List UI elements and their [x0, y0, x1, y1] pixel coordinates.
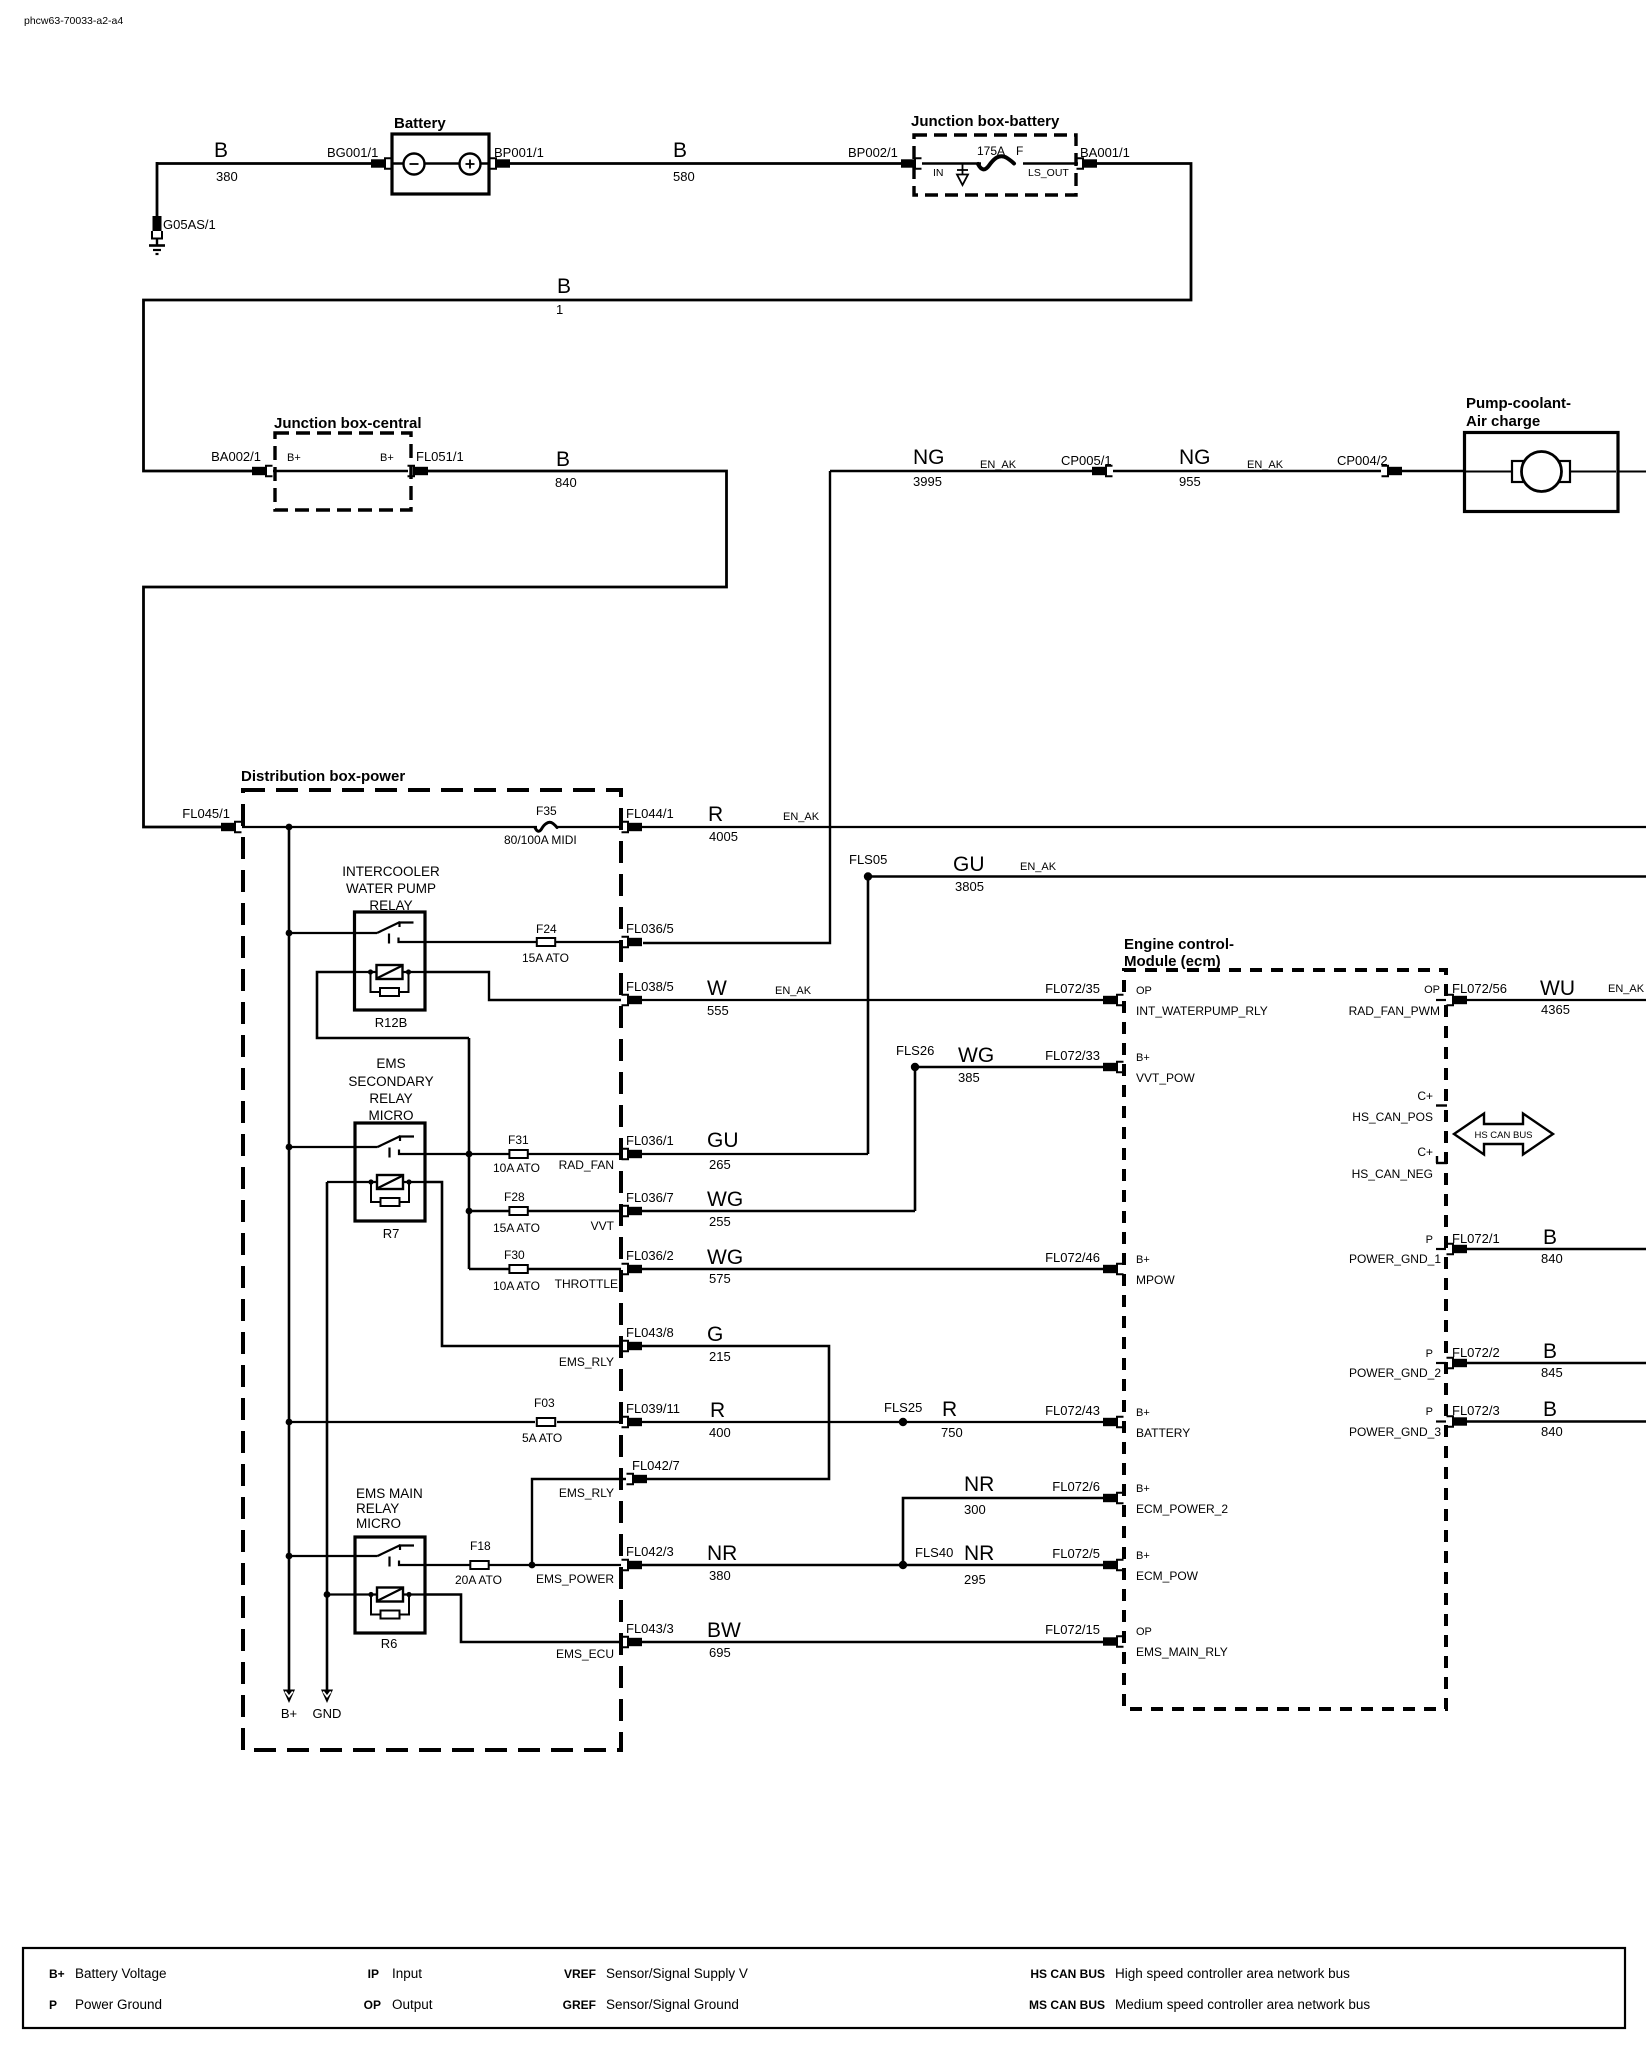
svg-text:B: B: [1543, 1340, 1557, 1363]
svg-text:15A ATO: 15A ATO: [493, 1221, 540, 1235]
svg-text:Module (ecm): Module (ecm): [1124, 953, 1221, 970]
wire NG riser from FL036/5 to pump row: [643, 471, 830, 943]
wire B+ to R7 switch: [289, 1146, 355, 1148]
wire WG 575 to ECM FL072/46: [642, 1268, 1103, 1271]
svg-text:C+: C+: [1417, 1089, 1433, 1103]
svg-text:FL072/46: FL072/46: [1045, 1250, 1100, 1265]
svg-text:HS_CAN_NEG: HS_CAN_NEG: [1352, 1167, 1433, 1181]
svg-text:B: B: [673, 139, 687, 162]
svg-text:G05AS/1: G05AS/1: [163, 217, 216, 232]
svg-text:FL038/5: FL038/5: [626, 979, 674, 994]
wire R7 coil left to GND rail: [327, 1181, 355, 1183]
svg-text:GU: GU: [953, 853, 985, 876]
node R12B switch feed: [286, 930, 293, 937]
svg-text:575: 575: [709, 1271, 731, 1286]
svg-text:FL072/56: FL072/56: [1452, 981, 1507, 996]
wire NG 955: [1113, 470, 1381, 472]
svg-text:RELAY: RELAY: [356, 1501, 399, 1516]
svg-text:BP002/1: BP002/1: [848, 145, 898, 160]
svg-text:EMS_RLY: EMS_RLY: [559, 1486, 614, 1500]
wire WG 255 to FLS26 drop: [642, 1210, 915, 1213]
wire FL042/7 to EMS_POWER junction: [532, 1479, 626, 1565]
svg-text:555: 555: [707, 1003, 729, 1018]
svg-text:F35: F35: [536, 804, 557, 818]
node B+ rail top: [286, 824, 293, 831]
svg-text:EN_AK: EN_AK: [775, 985, 812, 997]
wire R7 coil right EMS_RLY to FL043/8: [425, 1182, 621, 1346]
svg-text:B+: B+: [1136, 1052, 1150, 1064]
svg-text:B: B: [214, 139, 228, 162]
B+ rail: [288, 827, 291, 1690]
svg-text:380: 380: [216, 169, 238, 184]
svg-text:10A ATO: 10A ATO: [493, 1279, 540, 1293]
wire B+ inside junction box-central: [273, 470, 408, 472]
svg-text:FL072/5: FL072/5: [1052, 1546, 1100, 1561]
wire WG 385 to ECM FL072/33: [915, 1066, 1103, 1068]
svg-text:EN_AK: EN_AK: [980, 459, 1017, 471]
svg-text:FL051/1: FL051/1: [416, 449, 464, 464]
wire B 840 power ground 1: [1467, 1248, 1646, 1251]
svg-text:NG: NG: [1179, 446, 1211, 469]
svg-text:NR: NR: [964, 1542, 994, 1565]
wire NG 3995 pump feed: [830, 470, 1092, 472]
svg-text:High speed controller area net: High speed controller area network bus: [1115, 1966, 1350, 1981]
svg-text:FL072/15: FL072/15: [1045, 1622, 1100, 1637]
test point triangle: [962, 164, 964, 175]
svg-text:B+: B+: [1136, 1550, 1150, 1562]
svg-text:Medium speed controller area n: Medium speed controller area network bus: [1115, 1997, 1370, 2012]
svg-text:Junction box-battery: Junction box-battery: [911, 113, 1060, 130]
svg-text:WG: WG: [707, 1188, 743, 1211]
svg-text:CP004/2: CP004/2: [1337, 453, 1388, 468]
node fused feed junction F31: [466, 1151, 473, 1158]
svg-text:FL036/2: FL036/2: [626, 1248, 674, 1263]
svg-text:R: R: [942, 1398, 957, 1421]
svg-text:MICRO: MICRO: [356, 1516, 401, 1531]
svg-text:FL072/35: FL072/35: [1045, 981, 1100, 996]
svg-text:POWER_GND_3: POWER_GND_3: [1349, 1425, 1441, 1439]
svg-text:EN_AK: EN_AK: [783, 811, 820, 823]
svg-text:LS_OUT: LS_OUT: [1028, 167, 1069, 179]
svg-text:F30: F30: [504, 1248, 525, 1262]
svg-text:NR: NR: [964, 1473, 994, 1496]
svg-text:FL072/3: FL072/3: [1452, 1403, 1500, 1418]
node F03 feed: [286, 1419, 293, 1426]
wire R6 coil left to GND rail: [327, 1593, 355, 1595]
svg-text:W: W: [707, 977, 727, 1000]
svg-text:300: 300: [964, 1502, 986, 1517]
svg-text:Battery: Battery: [394, 115, 446, 132]
svg-text:EN_AK: EN_AK: [1608, 983, 1645, 995]
svg-text:B+: B+: [1136, 1483, 1150, 1495]
wire NR 300 riser to ECM FL072/6: [903, 1498, 1103, 1565]
svg-text:EMS_POWER: EMS_POWER: [536, 1572, 614, 1586]
svg-text:20A ATO: 20A ATO: [455, 1573, 502, 1587]
svg-text:F: F: [1016, 144, 1023, 158]
svg-text:1: 1: [556, 302, 563, 317]
svg-text:840: 840: [1541, 1424, 1563, 1439]
svg-text:HS CAN BUS: HS CAN BUS: [1474, 1130, 1532, 1141]
svg-text:OP: OP: [1136, 985, 1152, 997]
svg-text:B+: B+: [49, 1967, 65, 1981]
B+ output arrow: [283, 1690, 295, 1704]
svg-text:OP: OP: [1136, 1626, 1152, 1638]
svg-text:OP: OP: [364, 1998, 381, 2012]
svg-text:955: 955: [1179, 474, 1201, 489]
wire into pump: [1402, 470, 1464, 472]
svg-text:400: 400: [709, 1425, 731, 1440]
svg-text:5A ATO: 5A ATO: [522, 1431, 562, 1445]
wire B+ to fuse F03: [289, 1421, 535, 1423]
svg-text:ECM_POW: ECM_POW: [1136, 1569, 1199, 1583]
svg-text:840: 840: [1541, 1251, 1563, 1266]
svg-text:EN_AK: EN_AK: [1247, 459, 1284, 471]
svg-text:B: B: [1543, 1226, 1557, 1249]
wire WU 4365 to right edge: [1467, 999, 1646, 1001]
svg-text:EMS_RLY: EMS_RLY: [559, 1355, 614, 1369]
connector FL051/1: [408, 466, 415, 476]
svg-text:GND: GND: [313, 1706, 342, 1721]
svg-text:695: 695: [709, 1645, 731, 1660]
wire B+ to R12B switch: [289, 932, 355, 934]
wire from pump to right edge: [1618, 471, 1646, 473]
svg-text:B+: B+: [380, 452, 394, 464]
wire GU 3805 to right edge: [868, 875, 1646, 877]
svg-text:FL039/11: FL039/11: [626, 1401, 680, 1416]
svg-text:FL072/33: FL072/33: [1045, 1048, 1100, 1063]
svg-text:295: 295: [964, 1572, 986, 1587]
svg-text:R12B: R12B: [375, 1015, 408, 1030]
svg-text:WG: WG: [707, 1246, 743, 1269]
svg-text:WG: WG: [958, 1044, 994, 1067]
svg-text:EMS_MAIN_RLY: EMS_MAIN_RLY: [1136, 1645, 1228, 1659]
svg-text:FL036/5: FL036/5: [626, 921, 674, 936]
svg-text:G: G: [707, 1323, 723, 1346]
svg-text:B+: B+: [1136, 1407, 1150, 1419]
svg-text:750: 750: [941, 1425, 963, 1440]
svg-text:845: 845: [1541, 1365, 1563, 1380]
svg-text:B+: B+: [287, 452, 301, 464]
svg-text:B: B: [556, 448, 570, 471]
svg-text:INTERCOOLER: INTERCOOLER: [342, 864, 440, 879]
wire inside junction box-battery: [922, 162, 981, 164]
svg-text:840: 840: [555, 475, 577, 490]
svg-text:4005: 4005: [709, 829, 738, 844]
svg-text:BP001/1: BP001/1: [494, 145, 544, 160]
svg-text:GREF: GREF: [563, 1998, 596, 2012]
svg-text:380: 380: [709, 1568, 731, 1583]
svg-text:15A ATO: 15A ATO: [522, 951, 569, 965]
svg-text:FL036/1: FL036/1: [626, 1133, 674, 1148]
svg-text:P: P: [1426, 1234, 1433, 1246]
svg-text:INT_WATERPUMP_RLY: INT_WATERPUMP_RLY: [1136, 1004, 1268, 1018]
svg-text:VVT_POW: VVT_POW: [1136, 1071, 1195, 1085]
svg-text:C+: C+: [1417, 1145, 1433, 1159]
svg-text:FL036/7: FL036/7: [626, 1190, 674, 1205]
svg-text:EMS_ECU: EMS_ECU: [556, 1647, 614, 1661]
svg-text:Junction box-central: Junction box-central: [274, 415, 422, 432]
svg-text:BA002/1: BA002/1: [211, 449, 261, 464]
svg-text:Engine control-: Engine control-: [1124, 936, 1234, 953]
svg-text:VVT: VVT: [591, 1219, 615, 1233]
svg-text:ECM_POWER_2: ECM_POWER_2: [1136, 1502, 1228, 1516]
svg-text:IN: IN: [933, 167, 944, 179]
svg-text:Distribution box-power: Distribution box-power: [241, 768, 405, 785]
HS CAN BUS arrow: [1454, 1114, 1553, 1155]
ground symbol G05AS/1: [156, 238, 158, 245]
connector pin G05AS/1: [153, 216, 162, 231]
svg-text:BATTERY: BATTERY: [1136, 1426, 1190, 1440]
svg-text:F03: F03: [534, 1396, 555, 1410]
svg-text:FL043/8: FL043/8: [626, 1325, 674, 1340]
legend box: [23, 1948, 1625, 2028]
svg-text:NR: NR: [707, 1542, 737, 1565]
svg-text:FL044/1: FL044/1: [626, 806, 674, 821]
wire NR 380 / NR 295 to ECM FL072/5: [642, 1564, 1103, 1567]
svg-text:F31: F31: [508, 1133, 529, 1147]
svg-text:POWER_GND_1: POWER_GND_1: [1349, 1252, 1441, 1266]
svg-text:F24: F24: [536, 922, 557, 936]
GND output arrow: [321, 1690, 333, 1704]
svg-text:215: 215: [709, 1349, 731, 1364]
svg-text:R: R: [708, 803, 723, 826]
svg-text:WATER PUMP: WATER PUMP: [346, 881, 436, 896]
svg-text:P: P: [49, 1998, 57, 2012]
svg-text:265: 265: [709, 1157, 731, 1172]
svg-text:Input: Input: [392, 1966, 422, 1981]
svg-text:FLS05: FLS05: [849, 852, 887, 867]
svg-text:GU: GU: [707, 1129, 739, 1152]
svg-text:P: P: [1426, 1348, 1433, 1360]
svg-text:Battery Voltage: Battery Voltage: [75, 1966, 167, 1981]
node R6 coil ground: [324, 1591, 331, 1598]
svg-text:FL072/43: FL072/43: [1045, 1403, 1100, 1418]
svg-text:EMS MAIN: EMS MAIN: [356, 1486, 423, 1501]
node R7 switch feed: [286, 1144, 293, 1151]
wire R 400 / R 750 to ECM FL072/43: [642, 1421, 1103, 1423]
svg-text:FL072/1: FL072/1: [1452, 1231, 1500, 1246]
svg-text:NG: NG: [913, 446, 945, 469]
svg-text:VREF: VREF: [564, 1967, 596, 1981]
wire B 840 loop to distribution box: [144, 471, 727, 827]
wire B 845 power ground 2: [1467, 1362, 1646, 1365]
wire B 840 power ground 3: [1467, 1420, 1646, 1423]
svg-text:FL042/3: FL042/3: [626, 1544, 674, 1559]
svg-text:R7: R7: [383, 1226, 400, 1241]
svg-text:BW: BW: [707, 1619, 741, 1642]
svg-text:FL042/7: FL042/7: [632, 1458, 680, 1473]
svg-text:POWER_GND_2: POWER_GND_2: [1349, 1366, 1441, 1380]
wire R12B coil left to throttle feed line: [317, 972, 469, 1038]
wire to fuse F28: [469, 1210, 510, 1213]
svg-text:FL072/2: FL072/2: [1452, 1345, 1500, 1360]
svg-text:385: 385: [958, 1070, 980, 1085]
svg-text:Sensor/Signal Ground: Sensor/Signal Ground: [606, 1997, 739, 2012]
svg-text:SECONDARY: SECONDARY: [348, 1074, 433, 1089]
wire R12B switch output to fuse F24: [425, 941, 537, 943]
node R6 switch feed: [286, 1553, 293, 1560]
node fused feed junction F28: [466, 1208, 473, 1215]
svg-text:R6: R6: [381, 1636, 398, 1651]
svg-text:FLS25: FLS25: [884, 1400, 922, 1415]
svg-text:F28: F28: [504, 1190, 525, 1204]
svg-text:MS CAN BUS: MS CAN BUS: [1029, 1998, 1105, 2012]
svg-text:CP005/1: CP005/1: [1061, 453, 1112, 468]
svg-text:BG001/1: BG001/1: [327, 145, 378, 160]
svg-text:B+: B+: [1136, 1254, 1150, 1266]
svg-text:B: B: [557, 275, 571, 298]
svg-text:BA001/1: BA001/1: [1080, 145, 1130, 160]
svg-text:FL072/6: FL072/6: [1052, 1479, 1100, 1494]
svg-text:Pump-coolant-: Pump-coolant-: [1466, 395, 1571, 412]
wire fused feed rail: [468, 1038, 471, 1269]
svg-text:RAD_FAN: RAD_FAN: [559, 1158, 614, 1172]
svg-text:10A ATO: 10A ATO: [493, 1161, 540, 1175]
ground wire from B 380: [156, 162, 159, 217]
svg-text:MPOW: MPOW: [1136, 1273, 1175, 1287]
svg-text:HS_CAN_POS: HS_CAN_POS: [1352, 1110, 1433, 1124]
svg-text:EN_AK: EN_AK: [1020, 861, 1057, 873]
svg-text:MICRO: MICRO: [369, 1108, 414, 1123]
svg-text:B: B: [1543, 1398, 1557, 1421]
wire W 555 to ECM FL072/35: [642, 999, 1103, 1001]
svg-text:R: R: [710, 1399, 725, 1422]
svg-text:580: 580: [673, 169, 695, 184]
node EMS_POWER junction: [529, 1562, 536, 1569]
svg-text:FLS40: FLS40: [915, 1545, 953, 1560]
svg-text:Air charge: Air charge: [1466, 413, 1540, 430]
svg-text:FLS26: FLS26: [896, 1043, 934, 1058]
svg-text:OP: OP: [1424, 984, 1440, 996]
wire R6 switch output to fuse F18: [425, 1564, 470, 1566]
svg-text:80/100A MIDI: 80/100A MIDI: [504, 833, 577, 847]
wire R6 coil right EMS_ECU to FL043/3: [425, 1595, 621, 1643]
svg-text:RELAY: RELAY: [369, 1091, 412, 1106]
wire R 4005 to right edge: [642, 826, 1646, 828]
wire GU 265 to FLS05 drop: [642, 1153, 868, 1155]
svg-text:4365: 4365: [1541, 1002, 1570, 1017]
GND rail: [326, 1182, 329, 1690]
svg-text:FL045/1: FL045/1: [182, 806, 230, 821]
wire BW 695 to ECM FL072/15: [642, 1641, 1103, 1644]
svg-text:F18: F18: [470, 1539, 491, 1553]
svg-text:P: P: [1426, 1406, 1433, 1418]
wire G 215 loop to FL042/7: [642, 1346, 829, 1479]
wire to fuse F30: [469, 1268, 510, 1271]
svg-text:RAD_FAN_PWM: RAD_FAN_PWM: [1349, 1004, 1440, 1018]
wire B 580 battery positive to junction box: [510, 162, 901, 165]
svg-text:3995: 3995: [913, 474, 942, 489]
svg-text:255: 255: [709, 1214, 731, 1229]
svg-text:Output: Output: [392, 1997, 433, 2012]
wire FLS05 drop to RAD_FAN line: [867, 877, 870, 1155]
svg-text:IP: IP: [368, 1967, 379, 1981]
svg-text:EMS: EMS: [376, 1056, 405, 1071]
wire B 1 from junction box-battery down and left: [144, 164, 1192, 472]
svg-text:Sensor/Signal Supply V: Sensor/Signal Supply V: [606, 1966, 748, 1981]
wire B+ to R6 switch: [289, 1555, 355, 1557]
svg-text:phcw63-70033-a2-a4: phcw63-70033-a2-a4: [24, 15, 123, 27]
wire R12B coil right to FL038/5: [425, 972, 621, 1000]
wire B+ feed inside distribution box: [242, 826, 537, 828]
svg-text:3805: 3805: [955, 879, 984, 894]
wire R7 switch output: [425, 1153, 510, 1155]
svg-text:THROTTLE: THROTTLE: [555, 1277, 618, 1291]
svg-text:FL043/3: FL043/3: [626, 1621, 674, 1636]
svg-text:HS CAN BUS: HS CAN BUS: [1030, 1967, 1105, 1981]
wire FLS26 drop: [914, 1067, 917, 1211]
svg-text:WU: WU: [1540, 977, 1575, 1000]
wire B 380 battery negative to ground: [157, 162, 371, 165]
svg-text:Power Ground: Power Ground: [75, 1997, 162, 2012]
svg-text:B+: B+: [281, 1706, 297, 1721]
